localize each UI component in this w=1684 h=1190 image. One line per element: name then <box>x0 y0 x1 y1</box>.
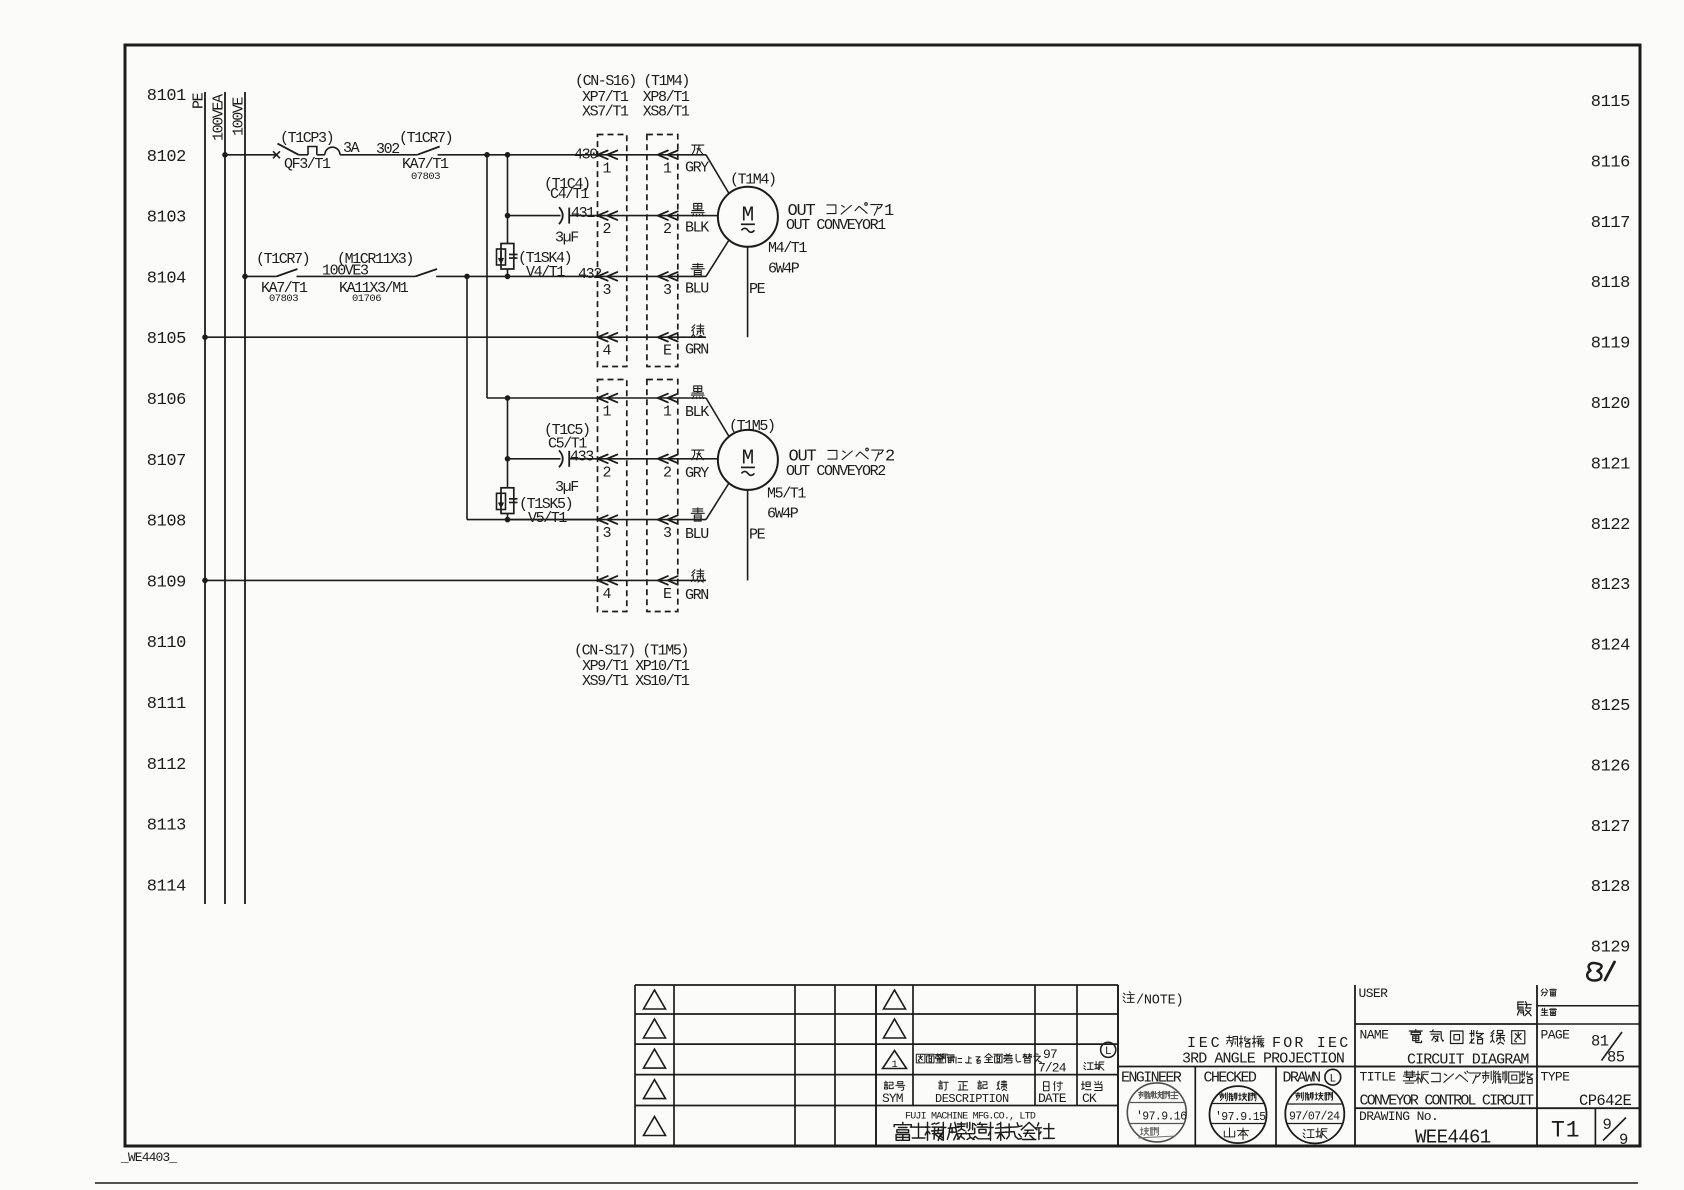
wire colour label GRY 灰 <box>685 145 709 176</box>
svg-text:430: 430 <box>574 147 598 164</box>
note text IEC standard FOR IEC <box>1187 1035 1350 1052</box>
svg-text:(T1M5): (T1M5) <box>729 418 775 435</box>
svg-text:V4/T1: V4/T1 <box>526 264 565 281</box>
page cell PAGE 81/85 <box>1541 1028 1625 1067</box>
svg-text:OUT CONVEYOR1: OUT CONVEYOR1 <box>786 217 886 234</box>
svg-text:8125: 8125 <box>1591 697 1630 716</box>
svg-text:2: 2 <box>663 221 671 238</box>
node: junction rung 8104 / surge killer <box>505 274 511 280</box>
svg-text:(T1M4): (T1M4) <box>730 172 776 189</box>
wire colour label BLK 黒 <box>685 203 709 236</box>
svg-text:PAGE: PAGE <box>1541 1028 1571 1043</box>
connector XS9/T1 dashed housing <box>598 380 627 612</box>
wire GRY diagonal to motor M4 <box>706 155 729 194</box>
svg-text:8111: 8111 <box>147 695 186 714</box>
left rung numbers 8101-8114 <box>147 87 186 896</box>
type cell TYPE CP642E <box>1541 1070 1632 1111</box>
svg-text:(CN-S17) (T1M5): (CN-S17) (T1M5) <box>574 643 688 660</box>
svg-text:(T1CR7): (T1CR7) <box>399 130 452 147</box>
svg-text:3µF: 3µF <box>555 479 578 496</box>
note box frame <box>1118 985 1640 1146</box>
handwritten page mark 81 <box>1587 962 1614 981</box>
wire rung 8104 from 100VE <box>245 275 277 277</box>
svg-text:GRN: GRN <box>685 342 708 359</box>
svg-text:C4/T1: C4/T1 <box>550 186 589 203</box>
wire rung 8107 from branch to capacitor <box>508 458 561 460</box>
checked stamp 山本 97.9.15 <box>1210 1086 1267 1143</box>
drawn stamp 江坂 97/07/24 <box>1285 1084 1344 1143</box>
connector pins 4/E with arrows at y=337 <box>598 333 707 360</box>
svg-text:8103: 8103 <box>147 209 186 228</box>
vertical branch wire 8102 to surge killer T1SK4 <box>507 155 509 244</box>
corner: vertical feed C turns onto rung 8108 <box>467 519 598 521</box>
svg-text:8119: 8119 <box>1591 335 1630 354</box>
svg-text:V5/T1: V5/T1 <box>528 510 567 527</box>
name cell NAME 電気回路線図 CIRCUIT DIAGRAM <box>1360 1028 1530 1069</box>
label OUT CONVEYOR1 katakana <box>827 202 894 221</box>
svg-text:07803: 07803 <box>269 293 298 305</box>
wire colour label BLU 青 (M5) <box>685 508 708 543</box>
drawing no cell DRAWING No. WEE4461 <box>1359 1109 1491 1149</box>
svg-text:(M1CR11X3): (M1CR11X3) <box>337 251 413 268</box>
svg-text:M4/T1: M4/T1 <box>768 240 807 257</box>
svg-text:QF3/T1: QF3/T1 <box>284 156 331 173</box>
title block grid <box>1355 985 1640 1146</box>
svg-text:100VE: 100VE <box>231 97 248 136</box>
svg-text:PE: PE <box>191 92 208 109</box>
svg-text:8114: 8114 <box>147 877 186 896</box>
svg-text:CP642E: CP642E <box>1579 1092 1632 1110</box>
revision table right grid <box>876 985 1118 1146</box>
svg-text:8116: 8116 <box>1591 153 1630 172</box>
svg-text:8110: 8110 <box>147 634 186 653</box>
svg-text:USER: USER <box>1359 986 1389 1001</box>
svg-text:L: L <box>1105 1046 1112 1058</box>
svg-text:6W4P: 6W4P <box>768 261 800 278</box>
connector pins 1/1 at y=398 <box>598 394 707 421</box>
terminal x mark on rung 8102 <box>273 151 280 158</box>
user cell USER 殿 <box>1359 986 1532 1016</box>
svg-text:97/07/24: 97/07/24 <box>1289 1111 1340 1124</box>
svg-text:CK: CK <box>1082 1091 1097 1106</box>
svg-text:8121: 8121 <box>1591 455 1630 474</box>
connector pins 1/1 with arrows at y=154 <box>598 151 707 178</box>
wire BLU diagonal to motor M4 <box>706 240 729 276</box>
svg-text:M5/T1: M5/T1 <box>767 486 806 503</box>
svg-text:WEE4461: WEE4461 <box>1415 1127 1491 1149</box>
copy edge line and sheet id _WE4403_ <box>95 1182 1638 1184</box>
svg-text:8117: 8117 <box>1591 214 1630 233</box>
svg-text:2: 2 <box>663 464 671 481</box>
svg-text:100VEA: 100VEA <box>211 94 228 141</box>
wire BLU diagonal to motor M5 <box>706 483 729 520</box>
wire colour label BLK 黒 (M5) <box>685 386 709 421</box>
svg-text:CIRCUIT DIAGRAM: CIRCUIT DIAGRAM <box>1407 1052 1529 1069</box>
svg-text:6W4P: 6W4P <box>767 506 799 523</box>
label M4/T1 6W4P <box>768 240 807 278</box>
svg-text:2: 2 <box>603 221 611 238</box>
svg-text:DATE: DATE <box>1038 1091 1067 1106</box>
node: junction 100VEA / rung 8102 <box>222 152 228 158</box>
wire PE vertical to motor M5 <box>748 490 766 581</box>
svg-text:IEC: IEC <box>1187 1035 1222 1052</box>
svg-text:TITLE: TITLE <box>1360 1070 1397 1085</box>
relay contact KA7/T1 (T1CR7) 07803 on rung 8104 <box>256 251 309 305</box>
connector pins 2/2 at y=458 <box>598 455 707 482</box>
svg-text:8123: 8123 <box>1591 576 1630 595</box>
connector pins 3/3 with arrows at y=276 <box>598 272 707 299</box>
svg-text:8120: 8120 <box>1591 395 1630 414</box>
surge killer V5/T1 (T1SK5) <box>497 488 573 527</box>
motor U=M4/T1 (T1M4) OUT CONVEYOR1 <box>718 172 816 247</box>
connector XS7/T1 dashed housing <box>598 135 627 367</box>
connector XS8/T1 dashed housing <box>647 135 678 367</box>
svg-text:_WE4403_: _WE4403_ <box>120 1150 177 1165</box>
svg-text:'97.9.15: '97.9.15 <box>1215 1111 1266 1124</box>
svg-text:2: 2 <box>885 448 894 467</box>
svg-text:PE: PE <box>749 281 766 298</box>
node: junction rung 8102 / vertical branch B <box>505 152 511 158</box>
svg-text:8104: 8104 <box>147 269 186 288</box>
svg-text:OUT CONVEYOR2: OUT CONVEYOR2 <box>786 463 885 480</box>
svg-text:07803: 07803 <box>411 171 440 183</box>
svg-text:9: 9 <box>1619 1131 1628 1149</box>
svg-text:FUJI MACHINE MFG.CO., LTD: FUJI MACHINE MFG.CO., LTD <box>905 1112 1036 1123</box>
revision table left grid <box>635 985 876 1146</box>
wire colour label GRN 緑 (M5) <box>685 569 708 604</box>
svg-text:8107: 8107 <box>147 452 186 471</box>
svg-text:1: 1 <box>884 202 894 221</box>
svg-text:(CN-S16) (T1M4): (CN-S16) (T1M4) <box>575 73 689 90</box>
wire rung 8105 (PE green) to connector <box>205 336 598 338</box>
connector pins 4/E at y=580 <box>598 576 707 603</box>
power rail 100VE <box>231 92 248 904</box>
relay contact KA7/T1 (T1CR7) 07803 on rung 8102 <box>399 130 452 183</box>
vertical feed wire from 8102 down to 8106 <box>486 155 488 398</box>
svg-text:TYPE: TYPE <box>1541 1070 1571 1085</box>
svg-text:9: 9 <box>1603 1116 1612 1134</box>
wire BLK into motor M4 <box>706 215 718 217</box>
node: junction rung 8104 / vertical feed C <box>464 274 470 280</box>
power rail 100VEA <box>211 92 228 904</box>
wire rung 8109 (PE green) to connector <box>205 579 598 581</box>
node: junction rung 8102 / vertical feed A <box>484 152 490 158</box>
wire 432 rung 8104 to connector <box>436 266 601 283</box>
maker cell FUJI MACHINE MFG <box>894 1112 1054 1141</box>
approval header ENGINEER CHECKED DRAWN (L) <box>1121 1069 1341 1086</box>
svg-text:8108: 8108 <box>147 513 186 532</box>
capacitor C5/T1 (T1C5) 3uF <box>544 422 590 496</box>
svg-text:CHECKED: CHECKED <box>1204 1070 1257 1087</box>
wire rung 8108 to connector <box>508 519 598 521</box>
svg-text:8124: 8124 <box>1591 637 1630 656</box>
connector label (CN-S16)(T1M4) XP7/XP8 XS7/XS8 <box>575 73 690 120</box>
svg-text:8128: 8128 <box>1591 878 1630 897</box>
svg-text:8129: 8129 <box>1591 939 1630 958</box>
svg-text:BLK: BLK <box>685 220 709 237</box>
svg-text:8105: 8105 <box>147 330 186 349</box>
svg-text:8122: 8122 <box>1591 516 1630 535</box>
svg-text:8101: 8101 <box>147 87 186 106</box>
wire 302 on rung 8102 <box>340 141 417 158</box>
revision table left triangles <box>644 990 666 1136</box>
engineer stamp <box>1127 1083 1187 1142</box>
revision entry 1: full redraw 97 7/24 <box>883 1042 1116 1075</box>
svg-text:L: L <box>1329 1074 1336 1086</box>
svg-text:3µF: 3µF <box>555 230 578 247</box>
wire rung 8103 from branch to capacitor <box>508 215 561 217</box>
svg-text:(T1CR7): (T1CR7) <box>256 251 309 268</box>
svg-text:2: 2 <box>603 464 611 481</box>
svg-text:'97.9.16: '97.9.16 <box>1136 1111 1187 1124</box>
svg-text:7/24: 7/24 <box>1038 1061 1067 1076</box>
node: junction rung 8108 / surge killer <box>505 517 511 523</box>
svg-text:GRY: GRY <box>685 160 709 177</box>
svg-text:(T1CP3): (T1CP3) <box>280 130 333 147</box>
svg-text:8102: 8102 <box>147 148 186 167</box>
revision table right triangles rows 1-2 <box>884 990 906 1038</box>
svg-text:XS9/T1 XS10/T1: XS9/T1 XS10/T1 <box>582 673 690 690</box>
svg-text:DRAWING No.: DRAWING No. <box>1359 1109 1438 1124</box>
relay contact KA11X3/M1 (M1CR11X3) 01706 on rung 8104 <box>337 251 437 305</box>
surge killer V4/T1 (T1SK4) <box>497 244 572 282</box>
svg-text:431: 431 <box>571 205 595 222</box>
vertical branch wire 8106 to surge killer T1SK5 <box>507 398 509 488</box>
svg-text:GRY: GRY <box>685 465 709 482</box>
revision table header desc text <box>935 1081 1102 1106</box>
svg-text:DESCRIPTION: DESCRIPTION <box>935 1092 1009 1106</box>
svg-text:302: 302 <box>376 141 399 158</box>
svg-text:/NOTE): /NOTE) <box>1136 994 1183 1009</box>
svg-text:XS7/T1 XS8/T1: XS7/T1 XS8/T1 <box>582 103 690 120</box>
svg-text:85: 85 <box>1607 1049 1625 1067</box>
wire 433 rung 8107 to connector <box>569 448 597 465</box>
wire colour label BLU 青 <box>685 263 708 297</box>
power rail PE <box>191 92 208 904</box>
sheet cell 9/9 <box>1603 1116 1629 1149</box>
note heading 注/NOTE) <box>1123 992 1183 1009</box>
svg-text:8126: 8126 <box>1591 757 1630 776</box>
node: junction 100VE / rung 8104 <box>242 274 248 280</box>
wire 431 rung 8103 to connector <box>569 205 597 222</box>
svg-text:8118: 8118 <box>1591 274 1630 293</box>
svg-text:NAME: NAME <box>1360 1028 1390 1043</box>
svg-text:BLU: BLU <box>685 281 708 298</box>
svg-text:GRN: GRN <box>685 587 708 604</box>
svg-text:PE: PE <box>749 527 766 544</box>
bunban seiban cells <box>1541 989 1557 1016</box>
wire colour label GRN 緑 <box>685 324 708 358</box>
wire 100VE3 on rung 8104 <box>297 263 416 280</box>
svg-text:FOR IEC: FOR IEC <box>1272 1035 1350 1052</box>
circuit breaker QF3/T1 (T1CP3) 3A <box>278 130 360 173</box>
motor U=M5/T1 (T1M5) OUT CONVEYOR2 <box>718 418 817 490</box>
label M5/T1 6W4P <box>767 486 806 523</box>
corner: vertical feed A turns onto rung 8106 <box>487 397 598 399</box>
wire BLK diagonal to motor M5 <box>706 398 729 437</box>
capacitor C4/T1 (T1C4) 3uF <box>544 176 590 247</box>
svg-text:8112: 8112 <box>147 756 186 775</box>
svg-text:8127: 8127 <box>1591 818 1630 837</box>
svg-text:BLU: BLU <box>685 526 708 543</box>
wire colour label GRY 灰 (M5) <box>685 450 709 482</box>
label OUT CONVEYOR2 katakana <box>828 448 894 467</box>
svg-text:01706: 01706 <box>352 293 381 305</box>
node: junction PE / rung 8109 <box>202 578 208 584</box>
svg-text:CONVEYOR CONTROL CIRCUIT: CONVEYOR CONTROL CIRCUIT <box>1360 1093 1535 1110</box>
right rung numbers 8115-8129 <box>1591 93 1630 958</box>
wire GRY into motor M5 <box>706 458 718 460</box>
svg-text:3RD ANGLE PROJECTION: 3RD ANGLE PROJECTION <box>1182 1051 1344 1068</box>
connector pins 3/3 at y=519 <box>598 515 707 542</box>
connector label (CN-S17)(T1M5) XP9/XP10 XS9/XS10 <box>574 643 690 690</box>
svg-text:8115: 8115 <box>1591 93 1630 112</box>
svg-text:8106: 8106 <box>147 391 186 410</box>
vertical feed wire from 8104 down to 8108 <box>466 276 468 519</box>
connector pins 2/2 with arrows at y=215 <box>598 211 707 238</box>
node: junction rung 8103 branch <box>505 213 511 219</box>
wire 430 rung 8102 to connector <box>438 147 599 164</box>
node: junction rung 8107 branch <box>505 456 511 462</box>
connector XS10/T1 dashed housing <box>647 380 678 612</box>
wire 8102 from 100VEA to breaker <box>225 154 277 156</box>
node: junction rung 8106 / branch B2 <box>505 395 511 401</box>
svg-text:8109: 8109 <box>147 573 186 592</box>
title cell TITLE 基板コンベア制御回路 CONVEYOR CONTROL CIRCUIT <box>1360 1070 1535 1110</box>
svg-text:BLK: BLK <box>685 404 709 421</box>
svg-text:1: 1 <box>892 1059 898 1071</box>
svg-text:SYM: SYM <box>882 1091 903 1106</box>
svg-text:433: 433 <box>570 448 594 465</box>
wire PE vertical to motor M4 <box>748 247 766 337</box>
node: junction PE / rung 8105 <box>202 334 208 340</box>
revision table headers SYM DESCRIPTION DATE CK <box>882 1081 1007 1106</box>
svg-text:8113: 8113 <box>147 817 186 836</box>
svg-text:T1: T1 <box>1551 1118 1581 1144</box>
